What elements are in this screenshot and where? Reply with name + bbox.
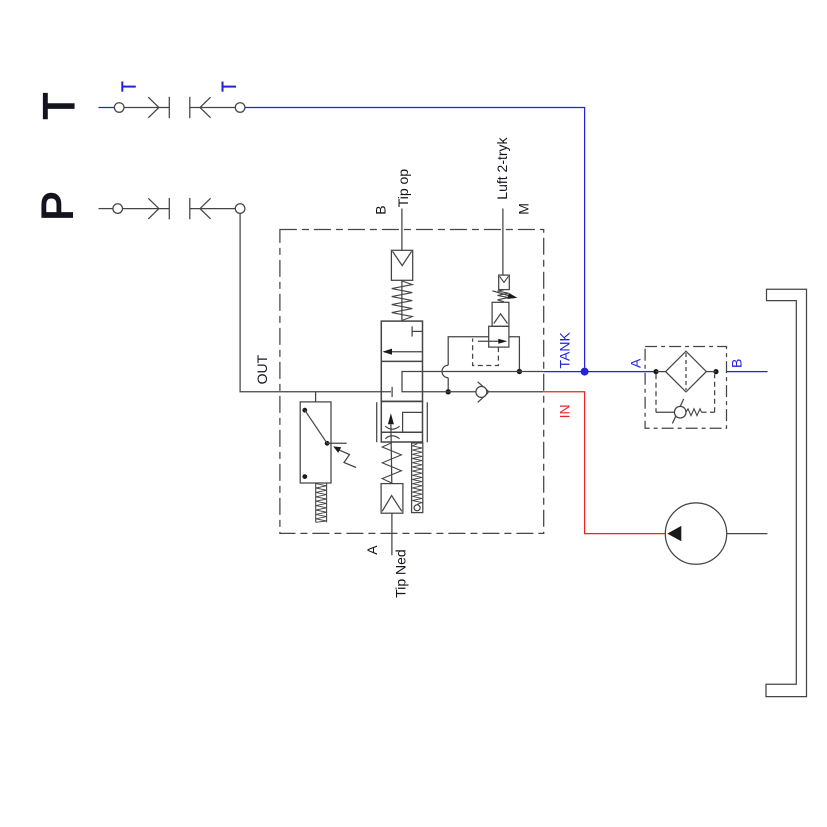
quick coupling P right arrowhead — [200, 198, 211, 219]
svg-text:OUT: OUT — [254, 354, 270, 384]
wire IN red to pump — [544, 392, 666, 534]
valve bottom box U path — [402, 372, 423, 392]
svg-text:A: A — [627, 358, 643, 368]
wire P coupling middle left — [123, 208, 170, 210]
detent coil element — [412, 443, 423, 513]
switch box S1 — [300, 402, 331, 483]
relief adjustment arrow — [492, 291, 511, 297]
junction dot on TANK line — [517, 369, 522, 374]
switch contact dot 3 — [302, 474, 307, 479]
relief valve flow arrow — [478, 340, 500, 342]
wire port M — [502, 209, 504, 276]
switch stub wire — [315, 392, 317, 402]
wire T blue stub — [99, 107, 115, 109]
quick coupling P left circle — [113, 204, 123, 214]
check valve ball — [476, 386, 487, 397]
relief right wire — [509, 337, 520, 372]
actuator section box — [381, 401, 422, 442]
quick coupling P left arrowhead — [148, 198, 159, 219]
wire TANK black — [423, 371, 544, 373]
manifold dashed box — [280, 230, 544, 534]
filter bypass check valve — [655, 374, 657, 412]
actuator up arrow — [388, 413, 394, 424]
wire port B — [401, 209, 403, 251]
quick coupling T left bar — [168, 97, 170, 118]
check valve seat — [478, 382, 489, 391]
quick coupling T right bar — [189, 97, 191, 118]
relief valve chevron box — [492, 302, 509, 326]
wire port A — [391, 513, 393, 555]
throttle arcs — [385, 426, 399, 429]
tank junction blue dot — [581, 368, 589, 376]
wire T line blue to tank junction — [245, 108, 585, 368]
svg-text:B: B — [372, 205, 388, 214]
svg-text:Tip op: Tip op — [395, 169, 411, 208]
valve top box arrow left — [384, 351, 423, 353]
wire T coupling middle left — [124, 107, 169, 109]
switch actuation lightning arrow — [339, 450, 356, 468]
switch lever — [305, 410, 327, 443]
filter port B dot — [713, 369, 718, 374]
svg-text:Luft 2-tryk: Luft 2-tryk — [494, 136, 510, 199]
wire IN black left of check valve — [423, 391, 477, 393]
quick coupling P left bar — [168, 198, 170, 219]
actuator right side bar — [426, 402, 428, 442]
quick coupling T left circle — [114, 103, 124, 113]
svg-text:M: M — [516, 203, 532, 215]
wire P coupling middle right — [190, 208, 236, 210]
valve bottom box OUT blocked crossbar — [391, 387, 393, 397]
spring below switch — [315, 483, 317, 522]
valve top box blocked port T symbol — [412, 330, 422, 332]
actuator divider — [381, 431, 422, 433]
relief left wire with hop — [448, 337, 489, 366]
quick coupling T right circle — [235, 103, 245, 113]
wire T coupling middle right — [190, 107, 236, 109]
wire IN black right of check valve — [487, 391, 544, 393]
wire pump outlet — [727, 533, 768, 535]
wire P down to OUT line — [240, 213, 391, 391]
main valve body U1 — [381, 321, 422, 401]
svg-text:P: P — [33, 191, 82, 220]
switch contact dot 2 — [325, 441, 330, 446]
filter diamond — [656, 371, 666, 373]
pump P1 — [665, 503, 726, 564]
valve position divider — [381, 360, 422, 362]
label T mark 1 — [122, 82, 136, 92]
svg-text:IN: IN — [556, 404, 572, 418]
svg-text:TANK: TANK — [556, 332, 572, 369]
wire P stub — [99, 208, 113, 210]
filter dashed box — [645, 347, 726, 429]
junction dot on IN line — [446, 389, 451, 394]
relief valve cap box with v — [499, 275, 510, 290]
svg-text:T: T — [34, 93, 83, 120]
actuator inner rect — [403, 412, 423, 432]
svg-text:B: B — [729, 359, 745, 368]
actuator left side bar — [376, 402, 378, 442]
filter port A dot — [653, 369, 658, 374]
spring above valve — [401, 280, 403, 321]
pilot cap box with V — [391, 250, 412, 280]
quick coupling P right circle — [235, 204, 245, 214]
relief valve spring — [498, 290, 509, 302]
relief valve arrow box — [489, 326, 509, 347]
svg-text:A: A — [364, 545, 380, 555]
wire TANK blue to filter — [544, 371, 656, 373]
switch contact dot 1 — [302, 408, 307, 413]
pump triangle — [667, 526, 681, 541]
svg-text:Tip Ned: Tip Ned — [393, 549, 409, 598]
relief pilot dashed line — [473, 339, 499, 366]
quick coupling P right bar — [189, 198, 191, 219]
quick coupling T right arrowhead — [200, 97, 211, 118]
quick coupling T left arrowhead — [148, 97, 159, 118]
spring below actuator — [382, 443, 401, 483]
label T mark 2 — [223, 82, 237, 92]
tank bracket — [766, 289, 807, 696]
chevron box A port — [381, 484, 403, 514]
wire filter B blue — [727, 371, 768, 373]
